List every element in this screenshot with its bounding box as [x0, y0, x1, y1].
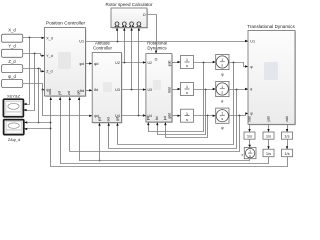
wire RD thetadd to integrator: [172, 88, 181, 90]
wire PC theta_d to AC: [86, 89, 93, 91]
svg-text:1/s: 1/s: [284, 134, 289, 139]
svg-text:U2: U2: [148, 61, 153, 65]
wire scope S2 input 2: [24, 128, 50, 130]
wire psi_d to PC and AC: [23, 84, 93, 118]
source block X_d: [2, 27, 23, 42]
source block psi_d: [2, 74, 23, 88]
wire z position feedback bus to PC p1 and scope: [50, 97, 288, 167]
svg-text:s: s: [221, 64, 223, 68]
integrator 1/s z-ddot: [282, 132, 293, 139]
svg-text:1: 1: [249, 149, 251, 153]
circle integrator theta: [216, 81, 229, 103]
svg-text:θdd: θdd: [167, 87, 171, 93]
svg-text:1/s: 1/s: [284, 151, 289, 156]
svg-text:1/s: 1/s: [266, 134, 271, 139]
block Attitude Controller: [92, 40, 122, 123]
wire U2 AC to RD with riser to RSC: [122, 28, 146, 64]
integrator 1/s y-dot: [263, 149, 274, 157]
svg-text:x: x: [241, 153, 243, 157]
circle integrator psi: [216, 108, 229, 130]
wire U3 AC to RD with riser to RSC: [122, 28, 146, 91]
svg-text:φdd: φdd: [167, 60, 171, 66]
svg-text:θd: θd: [94, 88, 98, 92]
svg-text:yd: yd: [57, 91, 61, 95]
svg-text:θd: θd: [107, 117, 111, 121]
svg-text:φd: φd: [146, 116, 150, 120]
wire RD phidd to integrator: [172, 61, 181, 63]
svg-text:ψ: ψ: [250, 112, 253, 116]
svg-text:1: 1: [221, 112, 223, 116]
wire TD zdd chain: [286, 125, 288, 150]
svg-text:1/s: 1/s: [266, 151, 271, 156]
wire theta to TD with feedback branch: [108, 88, 249, 149]
integrator 1/s phi-row: [181, 56, 194, 69]
block Translational Dynamics: [247, 24, 296, 126]
svg-text:U1: U1: [79, 40, 84, 44]
circle integrator phi: [216, 54, 229, 76]
svg-text:1: 1: [221, 58, 223, 62]
wire Y_d to PC with scope tap: [23, 53, 45, 112]
svg-text:Y_d: Y_d: [8, 44, 16, 49]
svg-text:ψ_d: ψ_d: [8, 74, 16, 79]
scope X&Y&Z: [3, 93, 23, 116]
wire PC phi_d to AC: [86, 62, 93, 64]
wire psi_dot row with feedback tap to RD: [164, 115, 216, 138]
svg-text:ψd: ψd: [76, 90, 80, 95]
svg-text:Z_d: Z_d: [8, 59, 16, 64]
svg-text:θd: θd: [80, 89, 84, 93]
svg-text:X_d: X_d: [46, 36, 53, 40]
svg-text:Controller: Controller: [93, 45, 113, 50]
svg-text:Position Controller: Position Controller: [46, 21, 86, 27]
wire TD ydd chain: [267, 125, 269, 150]
svg-text:U3: U3: [148, 88, 153, 92]
svg-text:1: 1: [221, 85, 223, 89]
svg-text:Ω: Ω: [143, 13, 146, 17]
svg-text:U1: U1: [250, 39, 255, 43]
integrator 1/s x-ddot: [244, 132, 255, 139]
integrator 1/s z-dot: [282, 149, 293, 157]
wire phi_dot row with feedback tap to RD: [147, 61, 216, 132]
svg-text:ψd: ψd: [116, 117, 120, 122]
svg-text:X_d: X_d: [8, 27, 16, 32]
svg-text:zdd: zdd: [285, 116, 289, 121]
wire X_d to PC with scope tap: [23, 37, 45, 106]
svg-text:zd: zd: [67, 91, 71, 95]
svg-text:Y_d: Y_d: [46, 54, 53, 58]
svg-text:φ: φ: [221, 71, 224, 76]
source block Z_d: [2, 59, 23, 73]
svg-text:s: s: [186, 117, 188, 122]
svg-text:Dynamics: Dynamics: [147, 45, 167, 50]
svg-text:X&Y&Z: X&Y&Z: [7, 93, 21, 98]
block Rotational Dynamics: [146, 40, 173, 123]
wire theta_dot row with feedback tap to RD: [156, 88, 216, 135]
wire x position feedback bus to PC p4: [78, 97, 250, 161]
integrator 1/s y-ddot: [263, 132, 274, 139]
wire RSC Omega out to RD top: [148, 15, 158, 54]
svg-text:xd: xd: [48, 91, 52, 95]
svg-text:ψdd: ψdd: [167, 113, 171, 119]
svg-text:s: s: [221, 117, 223, 121]
svg-text:ψ: ψ: [221, 125, 224, 130]
svg-text:U3: U3: [115, 88, 120, 92]
block Position Controller: [45, 21, 87, 98]
source block Y_d: [2, 44, 23, 58]
wire TD xdd chain: [248, 125, 251, 148]
wire phi to TD with feedback branch: [116, 62, 248, 145]
svg-text:θd: θd: [155, 116, 159, 120]
svg-text:φd: φd: [94, 62, 98, 66]
wire RD psidd to integrator: [172, 115, 181, 117]
integrator 1/s theta-row: [181, 83, 194, 96]
scope Z&psi: [4, 120, 24, 142]
svg-text:Z_d: Z_d: [46, 70, 52, 74]
integrator 1/s psi-row: [181, 109, 194, 122]
svg-text:s: s: [221, 91, 223, 95]
wire Z_d to PC with scope tap: [23, 68, 45, 124]
svg-text:ψd: ψd: [163, 116, 167, 120]
svg-text:φd: φd: [98, 117, 102, 121]
wire U4 AC to RD with riser to RSC: [122, 28, 146, 117]
svg-text:Z&ψ_d: Z&ψ_d: [8, 137, 20, 142]
wire psi to TD with feedback branch: [69, 97, 248, 161]
svg-text:ydd: ydd: [266, 116, 270, 121]
svg-text:φd: φd: [80, 62, 84, 66]
svg-text:Ω: Ω: [155, 57, 158, 61]
block Rotor speed Calculator: [106, 2, 153, 29]
svg-text:U2: U2: [115, 61, 120, 65]
svg-text:Translational Dynamics: Translational Dynamics: [247, 24, 295, 29]
wire U1 trunk PC to TD: [86, 28, 249, 43]
circle integrator x: [241, 148, 256, 159]
wire y position feedback bus to PC p2: [59, 97, 269, 164]
svg-text:s: s: [186, 90, 188, 95]
svg-text:θ: θ: [250, 88, 252, 92]
svg-text:Rotor speed Calculator: Rotor speed Calculator: [106, 2, 153, 7]
svg-text:xdd: xdd: [247, 116, 251, 121]
svg-text:s: s: [186, 63, 188, 68]
svg-text:1/s: 1/s: [247, 134, 252, 139]
wire scope S2 input 1: [24, 121, 50, 123]
